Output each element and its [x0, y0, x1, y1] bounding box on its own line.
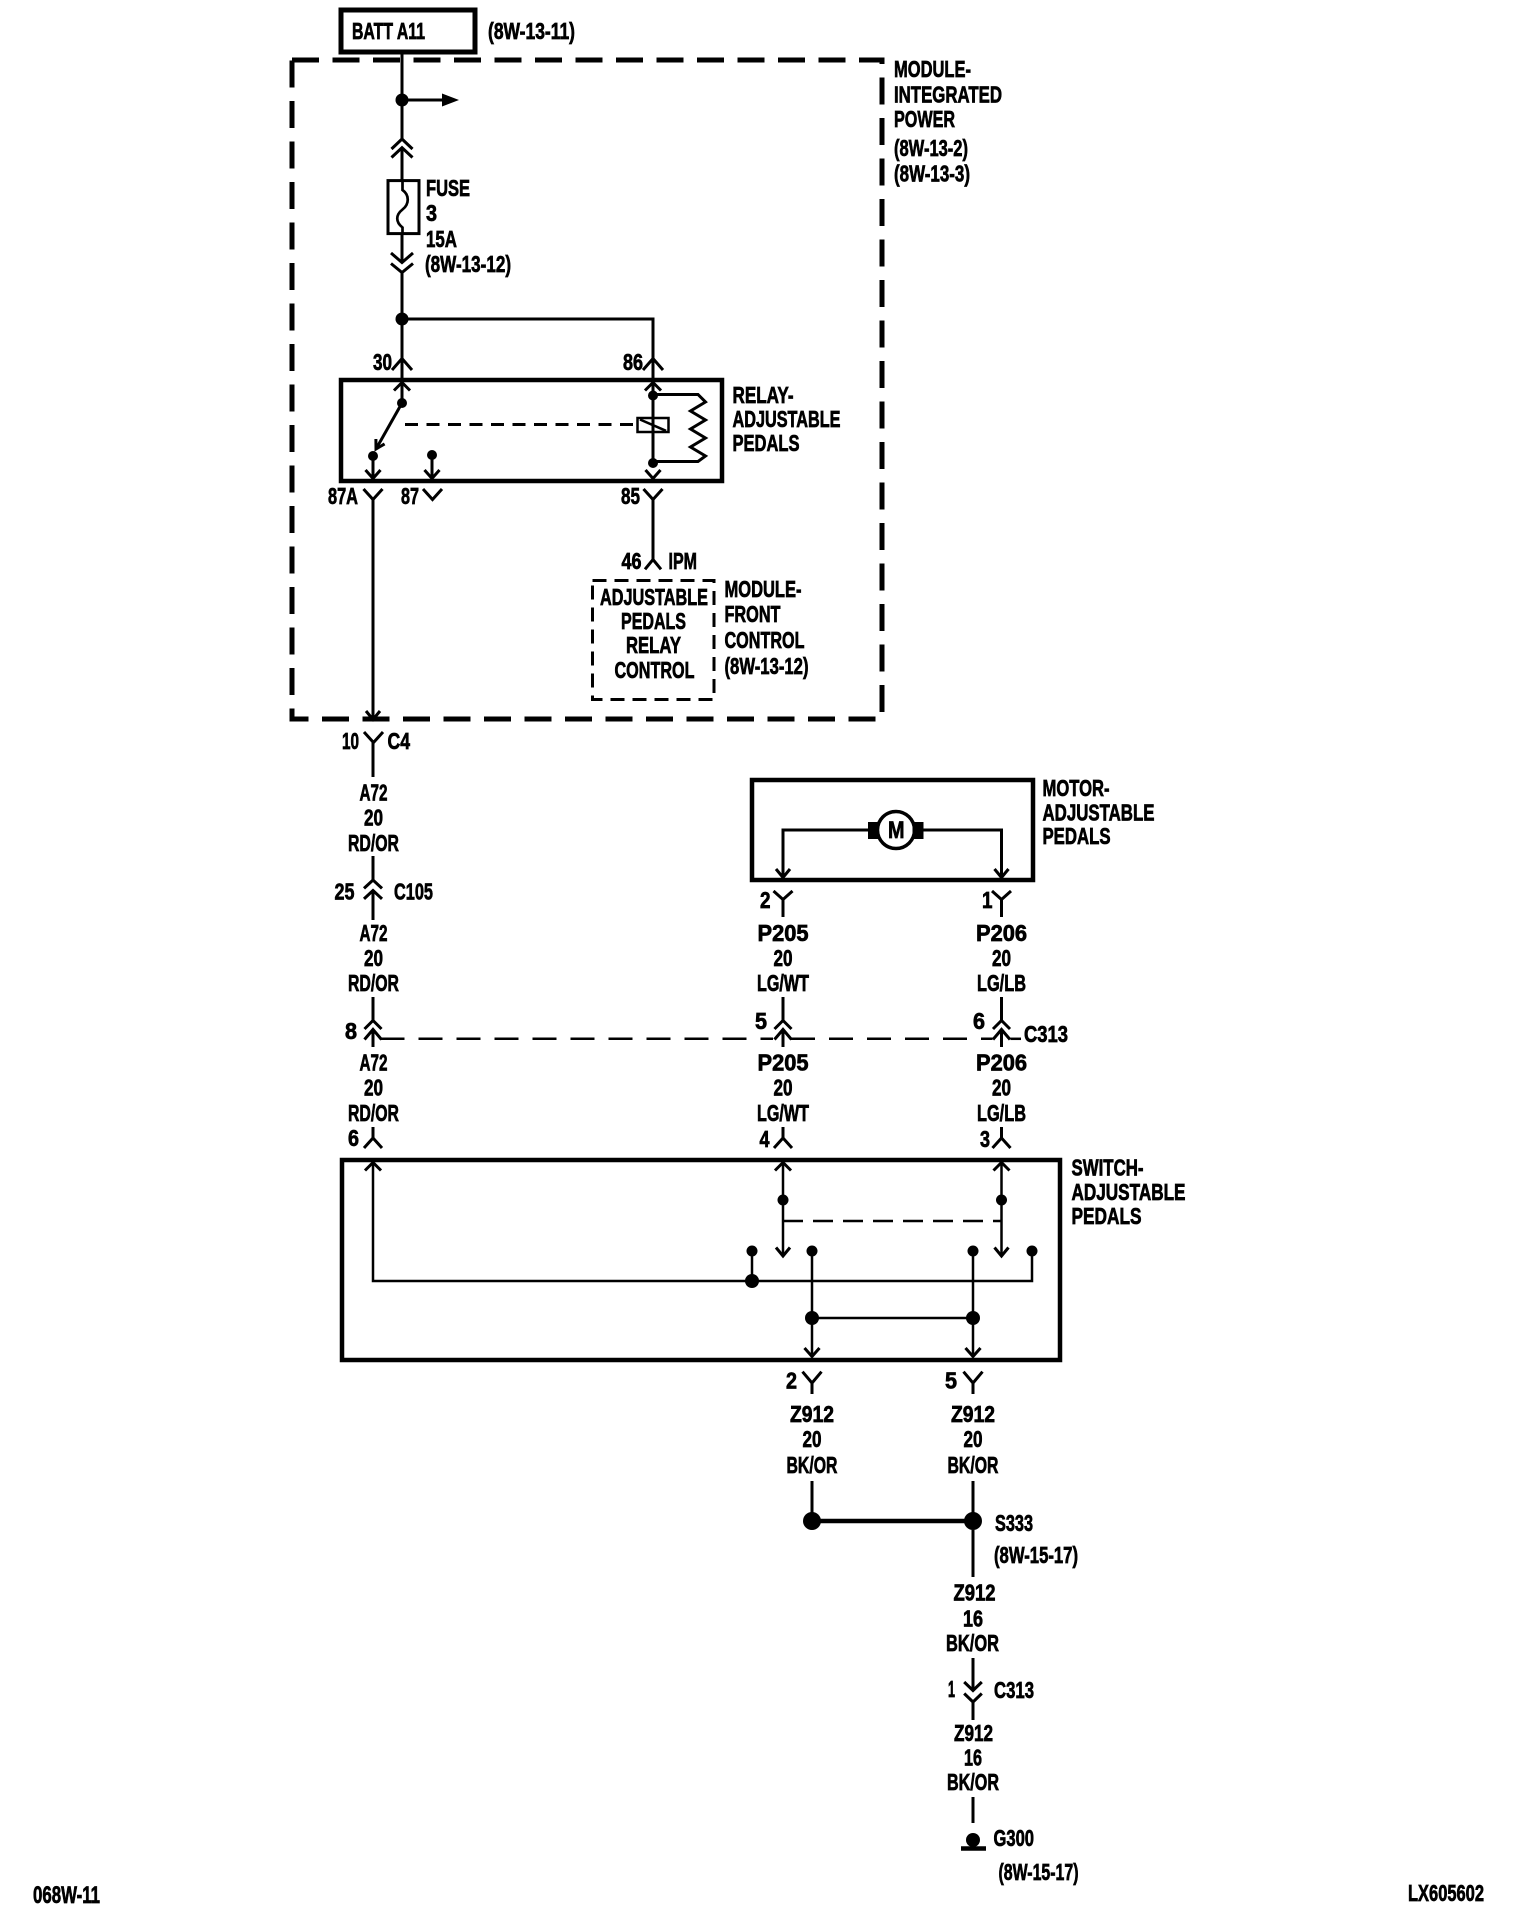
- svg-text:(8W-15-17): (8W-15-17): [994, 1542, 1078, 1568]
- module-integrated power dashed boundary box: [292, 60, 882, 719]
- switch pin 3 arrow inside: [994, 1163, 1010, 1171]
- svg-text:20: 20: [364, 945, 383, 971]
- svg-text:86: 86: [623, 349, 643, 375]
- svg-text:PEDALS: PEDALS: [1072, 1203, 1142, 1229]
- svg-text:1: 1: [948, 1676, 955, 1702]
- relay coil arrow from pin 86: [645, 383, 661, 396]
- svg-text:RD/OR: RD/OR: [348, 970, 399, 996]
- svg-text:2: 2: [760, 887, 771, 913]
- wire through coil: [652, 396, 655, 464]
- svg-text:C313: C313: [1024, 1021, 1068, 1047]
- wire C313 down: [372, 1030, 375, 1048]
- svg-text:Z912: Z912: [954, 1580, 996, 1606]
- wire pin 6 common rail: [373, 1163, 1032, 1282]
- fuse value label: [425, 175, 511, 277]
- svg-text:PEDALS: PEDALS: [1043, 823, 1111, 849]
- svg-text:BK/OR: BK/OR: [948, 1452, 999, 1478]
- svg-text:C105: C105: [394, 879, 433, 905]
- pin 6 male chevron into switch: [364, 1127, 382, 1148]
- svg-text:LG/LB: LG/LB: [977, 970, 1026, 996]
- svg-text:16: 16: [963, 1606, 983, 1632]
- relay contact 87A node: [368, 451, 378, 461]
- wire motor to pin 1: [924, 830, 1009, 878]
- wire pin 3 wiper: [995, 1163, 1009, 1257]
- wire pin 86 into relay: [652, 359, 655, 382]
- pin 46 male chevron: [645, 560, 661, 570]
- wire tap arrow to right: [402, 94, 459, 107]
- svg-text:(8W-13-11): (8W-13-11): [488, 18, 575, 44]
- svg-text:ADJUSTABLE: ADJUSTABLE: [1043, 800, 1155, 826]
- wire junction to pin 86 branch: [402, 319, 653, 359]
- relay coil top node: [648, 391, 658, 401]
- svg-text:ADJUSTABLE: ADJUSTABLE: [733, 406, 841, 432]
- label RELAY-ADJUSTABLE PEDALS: [733, 382, 841, 456]
- pin 87A female chevron: [364, 489, 383, 500]
- in-line connector double chevron down below fuse: [391, 253, 413, 273]
- svg-text:(8W-15-17): (8W-15-17): [999, 1859, 1079, 1885]
- wire label Z912 16 BK/OR: [947, 1720, 999, 1795]
- wire contact b to pin 2: [811, 1251, 814, 1354]
- wire chevron to fuse: [401, 148, 404, 181]
- wire label Z912 20 BK/OR right: [948, 1401, 999, 1478]
- svg-text:P205: P205: [758, 920, 809, 946]
- svg-text:1: 1: [982, 887, 993, 913]
- svg-text:IPM: IPM: [669, 548, 698, 574]
- fuse FUSE 3 15A: [388, 181, 419, 234]
- svg-text:RD/OR: RD/OR: [348, 1100, 399, 1126]
- svg-text:BK/OR: BK/OR: [947, 1769, 999, 1795]
- svg-text:POWER: POWER: [894, 106, 955, 132]
- node rail junction: [745, 1274, 759, 1288]
- svg-text:LG/LB: LG/LB: [977, 1100, 1026, 1126]
- svg-text:S333: S333: [995, 1510, 1033, 1536]
- svg-text:P206: P206: [976, 1050, 1027, 1076]
- svg-text:RD/OR: RD/OR: [348, 830, 399, 856]
- svg-text:MODULE-: MODULE-: [894, 56, 971, 82]
- svg-text:P206: P206: [976, 920, 1027, 946]
- wire C4 down to label A72: [372, 743, 375, 778]
- svg-text:M: M: [888, 817, 905, 844]
- svg-text:15A: 15A: [426, 226, 457, 252]
- svg-text:G300: G300: [994, 1825, 1035, 1851]
- wire stub junction to contact: [751, 1251, 754, 1281]
- wire label to ground: [972, 1797, 975, 1823]
- wire label P205 20 LG/WT: [757, 920, 809, 996]
- switch pin 6 arrow inside: [365, 1163, 381, 1171]
- svg-text:MOTOR-: MOTOR-: [1043, 775, 1110, 801]
- svg-text:(8W-13-12): (8W-13-12): [725, 653, 809, 679]
- svg-text:20: 20: [803, 1426, 822, 1452]
- connector C4 pin 10 female chevron: [364, 732, 383, 743]
- connector C313 pin 6 double chevron: [993, 1021, 1010, 1040]
- svg-text:6: 6: [973, 1008, 985, 1034]
- svg-text:46: 46: [622, 548, 642, 574]
- svg-text:RELAY-: RELAY-: [733, 382, 794, 408]
- pin 2 female chevron: [774, 891, 793, 917]
- label SWITCH-ADJUSTABLE PEDALS: [1072, 1155, 1186, 1230]
- wire C105 down: [372, 891, 375, 921]
- node pin 3 branch: [996, 1195, 1007, 1206]
- node cross link left: [805, 1311, 819, 1325]
- svg-text:BK/OR: BK/OR: [946, 1630, 999, 1656]
- wire P206 to connector C313: [1000, 997, 1003, 1021]
- relay actuating dashed link: [405, 423, 637, 426]
- svg-text:BK/OR: BK/OR: [787, 1452, 838, 1478]
- wire label A72 20 RD/OR: [348, 1050, 399, 1127]
- wire splice link: [812, 1519, 973, 1524]
- motor M1 symbol: [868, 812, 924, 849]
- relay coil symbol: [638, 418, 669, 432]
- relay switch blade: [376, 403, 402, 449]
- svg-text:3: 3: [426, 200, 437, 226]
- svg-text:PEDALS: PEDALS: [621, 608, 686, 634]
- svg-text:87: 87: [401, 483, 419, 509]
- dashed box ADJUSTABLE PEDALS RELAY CONTROL: [593, 581, 715, 700]
- pin 87 female chevron: [423, 489, 442, 500]
- switch pin 4 arrow inside: [775, 1163, 791, 1171]
- wire label P206 20 LG/LB: [976, 1050, 1027, 1127]
- arrow down at pin 87 inside relay: [425, 470, 440, 479]
- wire pin 85 down to IPM pin 46: [652, 500, 655, 560]
- svg-text:CONTROL: CONTROL: [725, 627, 805, 653]
- switch gang dashed link: [783, 1220, 1002, 1223]
- relay contact 87 node: [427, 450, 437, 460]
- svg-text:10: 10: [342, 728, 359, 754]
- svg-text:2: 2: [786, 1368, 797, 1394]
- wire stub to splice right: [972, 1481, 975, 1513]
- svg-text:RELAY: RELAY: [626, 632, 681, 658]
- svg-text:068W-11: 068W-11: [33, 1882, 100, 1909]
- svg-text:FUSE: FUSE: [426, 175, 470, 201]
- pin 86 male chevron: [643, 359, 663, 371]
- contact node a: [747, 1246, 758, 1257]
- svg-text:FRONT: FRONT: [725, 601, 781, 627]
- svg-text:20: 20: [774, 945, 793, 971]
- wire P205 to connector C313: [782, 997, 785, 1021]
- motor box MOTOR-ADJUSTABLE PEDALS: [752, 780, 1033, 880]
- node cross link right: [966, 1311, 980, 1325]
- relay common arrow from pin 30: [394, 383, 410, 404]
- wire contact c to pin 5: [972, 1251, 975, 1354]
- wire contact 87 to pin: [431, 455, 434, 478]
- svg-text:4: 4: [760, 1126, 770, 1152]
- relay coil bottom node: [648, 458, 658, 468]
- wire label Z912 16 BK/OR: [946, 1580, 999, 1657]
- svg-text:30: 30: [373, 349, 392, 375]
- wire stub to splice left: [811, 1481, 814, 1513]
- arrow down at pin 2 inside: [805, 1348, 820, 1357]
- svg-text:A72: A72: [360, 780, 388, 806]
- svg-text:8: 8: [345, 1018, 357, 1044]
- svg-text:MODULE-: MODULE-: [725, 576, 802, 602]
- arrow down at module boundary: [366, 711, 380, 720]
- svg-text:CONTROL: CONTROL: [615, 657, 695, 683]
- pin 2 female chevron: [803, 1372, 822, 1394]
- wire C313 pin5 down: [782, 1030, 785, 1048]
- splice S333 right node: [964, 1512, 982, 1530]
- ground G300: [961, 1833, 986, 1849]
- connector C313 pin 5 double chevron: [775, 1021, 792, 1040]
- wire C313 down: [972, 1702, 975, 1720]
- battery feed box BATT A11: [341, 10, 475, 52]
- svg-text:85: 85: [621, 483, 640, 509]
- wire contact 87A to pin: [372, 456, 375, 478]
- svg-text:LG/WT: LG/WT: [757, 1100, 809, 1126]
- pin 3 male chevron into switch: [993, 1127, 1011, 1148]
- wire label to connector C313: [972, 1658, 975, 1689]
- svg-text:3: 3: [980, 1126, 990, 1152]
- wire label to connector C105: [372, 856, 375, 880]
- svg-text:16: 16: [964, 1745, 982, 1771]
- in-line connector double chevron up above fuse: [392, 139, 413, 158]
- svg-text:20: 20: [364, 1075, 383, 1101]
- svg-text:6: 6: [348, 1125, 359, 1151]
- svg-text:Z912: Z912: [954, 1720, 993, 1746]
- wire pin 4 wiper: [776, 1163, 790, 1257]
- connector C105 double chevron: [364, 880, 382, 899]
- label MOTOR-ADJUSTABLE PEDALS: [1043, 775, 1155, 849]
- svg-text:LG/WT: LG/WT: [757, 970, 809, 996]
- pin 5 female chevron: [964, 1372, 983, 1394]
- pin 4 male chevron into switch: [774, 1127, 792, 1148]
- wire pin 30 into relay: [401, 359, 404, 382]
- wire label P205 20 LG/WT: [757, 1050, 809, 1127]
- node pin 4 branch: [778, 1195, 789, 1206]
- switch box SWITCH-ADJUSTABLE PEDALS: [342, 1160, 1060, 1360]
- svg-text:SWITCH-: SWITCH-: [1072, 1155, 1144, 1181]
- contact node d: [1027, 1246, 1038, 1257]
- label MODULE-FRONT CONTROL: [725, 576, 809, 679]
- arrow down at pin 87A inside relay: [366, 470, 381, 479]
- svg-text:C4: C4: [388, 728, 411, 754]
- resistor parallel with coil: [653, 395, 706, 462]
- svg-text:20: 20: [964, 1426, 983, 1452]
- connector C313 dashed gang line: [381, 1038, 1022, 1041]
- wire fuse to lower chevrons: [401, 234, 404, 262]
- relay R1 box RELAY-ADJUSTABLE PEDALS: [341, 380, 722, 481]
- contact node b: [807, 1246, 818, 1257]
- wire splice down: [972, 1530, 975, 1577]
- node junction feeding relay pins 30 and 86: [396, 313, 409, 326]
- svg-text:20: 20: [992, 1075, 1011, 1101]
- svg-text:A72: A72: [360, 1050, 388, 1076]
- arrow down at pin 85 inside relay: [646, 470, 661, 479]
- svg-text:(8W-13-3): (8W-13-3): [894, 161, 970, 187]
- svg-text:20: 20: [992, 945, 1011, 971]
- relay common node: [397, 398, 407, 408]
- connector C313 pin 8 double chevron: [365, 1021, 382, 1040]
- svg-text:20: 20: [364, 805, 383, 831]
- pin 85 female chevron: [644, 489, 663, 500]
- svg-text:C313: C313: [994, 1677, 1034, 1703]
- wire label A72 20 RD/OR: [348, 780, 399, 857]
- splice S333 left node: [803, 1512, 821, 1530]
- wire chevron to junction node: [401, 273, 404, 359]
- wire motor to pin 2: [776, 830, 868, 878]
- svg-text:Z912: Z912: [790, 1401, 834, 1427]
- svg-text:(8W-13-12): (8W-13-12): [425, 251, 511, 277]
- arrow down at pin 5 inside: [966, 1348, 981, 1357]
- svg-text:ADJUSTABLE: ADJUSTABLE: [1072, 1179, 1186, 1205]
- svg-text:BATT A11: BATT A11: [352, 18, 425, 44]
- svg-text:LX605602: LX605602: [1408, 1880, 1484, 1906]
- svg-text:INTEGRATED: INTEGRATED: [894, 82, 1002, 108]
- svg-text:5: 5: [945, 1368, 957, 1394]
- node junction below battery: [396, 94, 409, 107]
- wire pin 87A down to connector C4: [372, 500, 375, 718]
- wire label Z912 20 BK/OR left: [787, 1401, 838, 1478]
- wire cross link: [812, 1317, 973, 1320]
- wire label to connector C313: [372, 997, 375, 1021]
- connector C313 pin 1 double chevron down: [964, 1682, 982, 1702]
- svg-text:(8W-13-2): (8W-13-2): [894, 135, 968, 161]
- svg-text:Z912: Z912: [951, 1401, 995, 1427]
- wire label P206 20 LG/LB: [976, 920, 1027, 996]
- svg-text:25: 25: [335, 879, 355, 905]
- contact node c: [968, 1246, 979, 1257]
- wire C313 pin6 down: [1000, 1030, 1003, 1048]
- svg-text:20: 20: [774, 1075, 793, 1101]
- pin 1 female chevron: [992, 891, 1011, 917]
- wire BATT A11 down to junction: [401, 52, 404, 139]
- pin 30 male chevron: [392, 359, 412, 371]
- svg-text:PEDALS: PEDALS: [733, 430, 800, 456]
- svg-text:5: 5: [755, 1008, 767, 1034]
- wire label A72 20 RD/OR: [348, 920, 399, 996]
- svg-text:ADJUSTABLE: ADJUSTABLE: [600, 584, 708, 610]
- svg-text:87A: 87A: [328, 483, 358, 509]
- svg-text:A72: A72: [360, 920, 388, 946]
- label MODULE-INTEGRATED POWER: [894, 56, 1002, 187]
- svg-text:P205: P205: [758, 1050, 809, 1076]
